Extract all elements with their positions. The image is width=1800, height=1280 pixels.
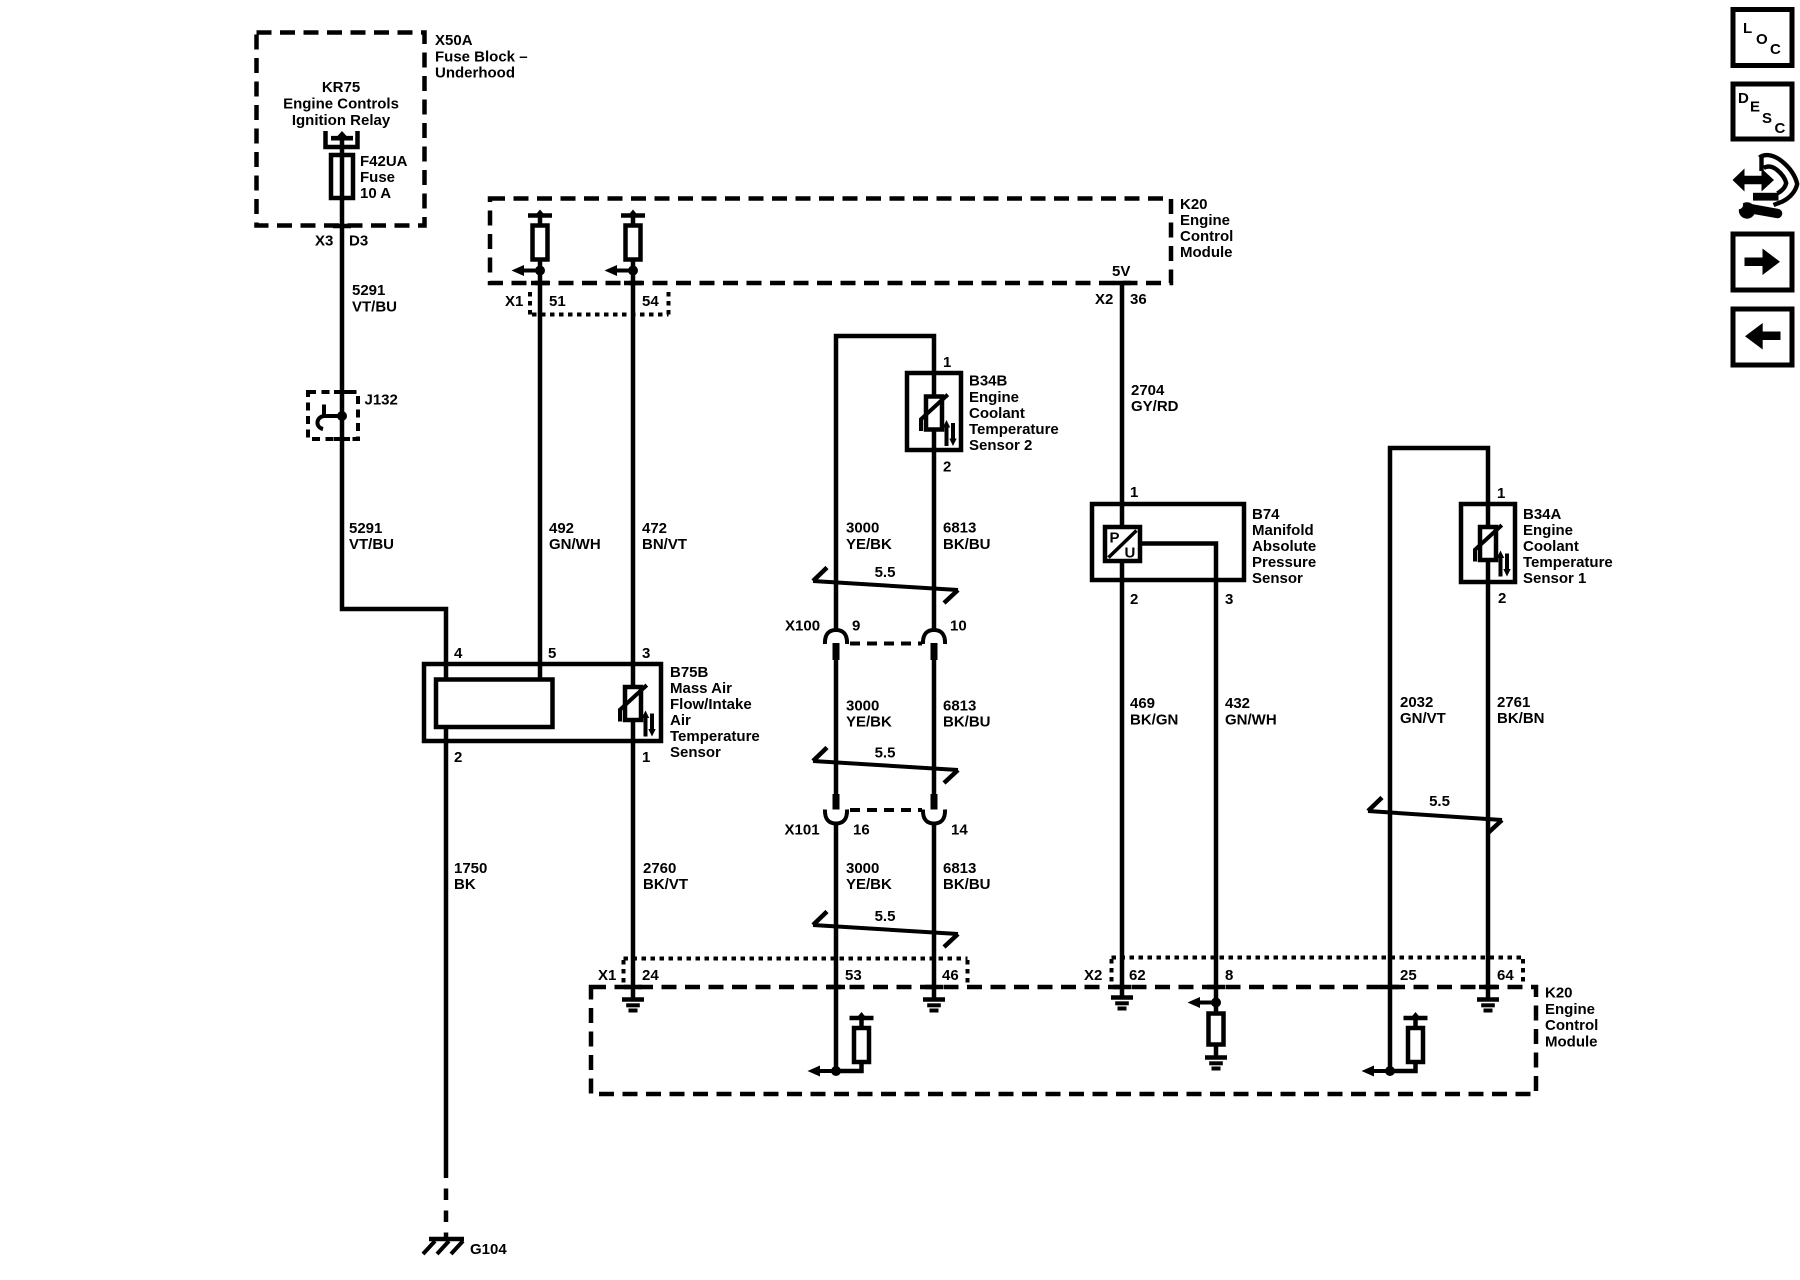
svg-text:S: S xyxy=(1762,110,1772,127)
svg-text:53: 53 xyxy=(845,967,862,984)
svg-text:3000: 3000 xyxy=(846,860,879,877)
svg-text:5: 5 xyxy=(548,645,556,662)
svg-text:D: D xyxy=(1738,90,1749,107)
svg-text:GY/RD: GY/RD xyxy=(1131,398,1179,415)
svg-text:Engine: Engine xyxy=(1523,522,1573,539)
svg-text:KR75: KR75 xyxy=(322,79,360,96)
svg-text:1750: 1750 xyxy=(454,860,487,877)
svg-text:3: 3 xyxy=(642,645,650,662)
svg-text:5291: 5291 xyxy=(352,282,385,299)
svg-text:5.5: 5.5 xyxy=(875,908,896,925)
svg-text:O: O xyxy=(1756,31,1768,48)
svg-text:Control: Control xyxy=(1545,1017,1598,1034)
svg-text:B75B: B75B xyxy=(670,664,709,681)
svg-text:6813: 6813 xyxy=(943,860,976,877)
svg-text:U: U xyxy=(1125,545,1136,562)
svg-text:16: 16 xyxy=(853,822,870,839)
svg-text:5V: 5V xyxy=(1112,263,1130,280)
svg-text:X2: X2 xyxy=(1084,967,1102,984)
svg-text:G104: G104 xyxy=(470,1241,507,1258)
svg-text:472: 472 xyxy=(642,520,667,537)
svg-text:46: 46 xyxy=(942,967,959,984)
svg-text:X101: X101 xyxy=(785,822,820,839)
svg-text:C: C xyxy=(1770,41,1781,58)
svg-text:BK/BU: BK/BU xyxy=(943,714,991,731)
svg-text:Sensor 2: Sensor 2 xyxy=(969,437,1032,454)
svg-text:X100: X100 xyxy=(785,618,820,635)
svg-text:BK/BU: BK/BU xyxy=(943,536,991,553)
svg-text:D3: D3 xyxy=(349,233,368,250)
svg-text:51: 51 xyxy=(549,293,566,310)
svg-text:BN/VT: BN/VT xyxy=(642,536,687,553)
svg-text:492: 492 xyxy=(549,520,574,537)
svg-text:5.5: 5.5 xyxy=(875,745,896,762)
svg-text:GN/WH: GN/WH xyxy=(1225,712,1277,729)
svg-text:Fuse: Fuse xyxy=(360,169,395,186)
svg-text:X1: X1 xyxy=(598,967,616,984)
svg-text:Mass Air: Mass Air xyxy=(670,680,732,697)
svg-text:F42UA: F42UA xyxy=(360,153,408,170)
svg-text:YE/BK: YE/BK xyxy=(846,714,892,731)
svg-text:Engine: Engine xyxy=(1545,1001,1595,1018)
svg-text:62: 62 xyxy=(1129,967,1146,984)
svg-text:K20: K20 xyxy=(1545,985,1573,1002)
svg-text:Ignition Relay: Ignition Relay xyxy=(292,112,391,129)
svg-text:B74: B74 xyxy=(1252,506,1280,523)
svg-text:2: 2 xyxy=(943,459,951,476)
svg-text:Module: Module xyxy=(1180,244,1233,261)
svg-text:Engine Controls: Engine Controls xyxy=(283,96,399,113)
svg-text:L: L xyxy=(1743,20,1752,37)
svg-text:24: 24 xyxy=(642,967,659,984)
svg-text:Sensor 1: Sensor 1 xyxy=(1523,570,1586,587)
svg-text:14: 14 xyxy=(951,822,968,839)
svg-text:1: 1 xyxy=(1497,485,1505,502)
svg-text:Coolant: Coolant xyxy=(969,405,1025,422)
svg-text:Flow/Intake: Flow/Intake xyxy=(670,696,752,713)
svg-text:Air: Air xyxy=(670,712,691,729)
svg-text:6813: 6813 xyxy=(943,520,976,537)
svg-text:J132: J132 xyxy=(365,392,398,409)
svg-text:2032: 2032 xyxy=(1400,694,1433,711)
svg-text:54: 54 xyxy=(642,293,659,310)
svg-text:1: 1 xyxy=(943,354,951,371)
svg-text:2761: 2761 xyxy=(1497,694,1530,711)
svg-text:2: 2 xyxy=(1498,590,1506,607)
svg-text:469: 469 xyxy=(1130,695,1155,712)
svg-text:Underhood: Underhood xyxy=(435,65,515,82)
svg-text:BK/BU: BK/BU xyxy=(943,876,991,893)
svg-text:Control: Control xyxy=(1180,228,1233,245)
svg-text:BK: BK xyxy=(454,876,476,893)
svg-text:GN/WH: GN/WH xyxy=(549,536,601,553)
svg-text:Module: Module xyxy=(1545,1033,1598,1050)
svg-text:BK/GN: BK/GN xyxy=(1130,712,1178,729)
svg-text:X2: X2 xyxy=(1095,291,1113,308)
svg-text:X1: X1 xyxy=(505,293,523,310)
svg-text:BK/BN: BK/BN xyxy=(1497,710,1545,727)
svg-text:1: 1 xyxy=(1130,484,1138,501)
svg-text:5.5: 5.5 xyxy=(875,564,896,581)
svg-text:Temperature: Temperature xyxy=(1523,554,1613,571)
svg-text:64: 64 xyxy=(1497,967,1514,984)
svg-text:5.5: 5.5 xyxy=(1429,793,1450,810)
svg-text:3000: 3000 xyxy=(846,698,879,715)
svg-text:Engine: Engine xyxy=(1180,212,1230,229)
svg-text:GN/VT: GN/VT xyxy=(1400,710,1446,727)
svg-text:Sensor: Sensor xyxy=(1252,570,1303,587)
svg-text:VT/BU: VT/BU xyxy=(349,536,394,553)
svg-text:X3: X3 xyxy=(315,233,333,250)
svg-text:2: 2 xyxy=(454,749,462,766)
svg-text:B34A: B34A xyxy=(1523,506,1562,523)
svg-text:Sensor: Sensor xyxy=(670,744,721,761)
svg-text:4: 4 xyxy=(454,645,463,662)
svg-text:36: 36 xyxy=(1130,291,1147,308)
svg-text:3: 3 xyxy=(1225,591,1233,608)
svg-text:3000: 3000 xyxy=(846,520,879,537)
svg-text:10 A: 10 A xyxy=(360,185,391,202)
svg-text:2760: 2760 xyxy=(643,860,676,877)
svg-text:1: 1 xyxy=(642,749,650,766)
svg-text:Fuse Block –: Fuse Block – xyxy=(435,48,528,65)
svg-text:9: 9 xyxy=(852,618,860,635)
svg-text:2: 2 xyxy=(1130,591,1138,608)
svg-text:C: C xyxy=(1775,120,1786,137)
svg-text:E: E xyxy=(1750,99,1760,116)
svg-text:Temperature: Temperature xyxy=(670,728,760,745)
svg-text:5291: 5291 xyxy=(349,520,382,537)
svg-text:10: 10 xyxy=(950,618,967,635)
svg-text:VT/BU: VT/BU xyxy=(352,299,397,316)
svg-text:K20: K20 xyxy=(1180,196,1208,213)
svg-text:Manifold: Manifold xyxy=(1252,522,1314,539)
svg-text:Engine: Engine xyxy=(969,389,1019,406)
svg-text:25: 25 xyxy=(1400,967,1417,984)
svg-text:Absolute: Absolute xyxy=(1252,538,1316,555)
svg-text:8: 8 xyxy=(1225,967,1233,984)
svg-text:YE/BK: YE/BK xyxy=(846,536,892,553)
svg-text:2704: 2704 xyxy=(1131,382,1165,399)
svg-text:YE/BK: YE/BK xyxy=(846,876,892,893)
svg-text:6813: 6813 xyxy=(943,698,976,715)
svg-text:Pressure: Pressure xyxy=(1252,554,1316,571)
svg-text:432: 432 xyxy=(1225,695,1250,712)
svg-text:P: P xyxy=(1110,530,1120,547)
svg-text:Temperature: Temperature xyxy=(969,421,1059,438)
svg-text:Coolant: Coolant xyxy=(1523,538,1579,555)
svg-text:X50A: X50A xyxy=(435,32,473,49)
svg-text:BK/VT: BK/VT xyxy=(643,876,688,893)
svg-text:B34B: B34B xyxy=(969,373,1008,390)
